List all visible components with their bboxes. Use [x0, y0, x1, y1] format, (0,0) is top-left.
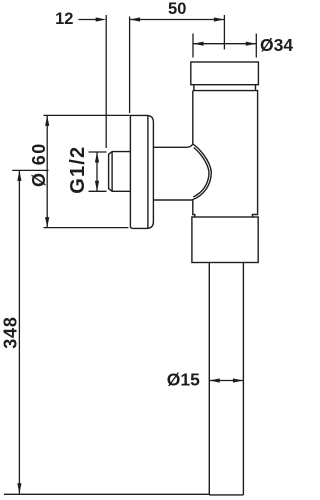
arrow Ø60 top tip	[45, 115, 49, 126]
arrow Ø15 left tip	[209, 378, 220, 382]
arrow Ø15 right tip	[233, 378, 244, 382]
dim 12 extension line right (flange face)	[129, 17, 131, 114]
svg-text:Ø15: Ø15	[167, 370, 200, 390]
svg-text:Ø 60: Ø 60	[29, 142, 49, 187]
svg-text:12: 12	[55, 10, 73, 28]
arrow Ø34 left tip	[193, 42, 204, 46]
elbow inner wall line	[193, 148, 209, 197]
neck band under cap	[194, 85, 256, 91]
svg-text:Ø34: Ø34	[260, 35, 293, 55]
svg-text:G1/2: G1/2	[67, 146, 89, 194]
dim Ø60 extension line bottom	[44, 227, 129, 229]
dim Ø34 extension line left	[192, 34, 194, 58]
arrow G1/2 bottom tip	[95, 181, 99, 192]
nipple chamfer edge line	[111, 152, 113, 192]
valve body lower section	[192, 217, 258, 263]
dim 12 extension line left (nipple face)	[105, 15, 107, 148]
arrow 348 bottom tip	[17, 483, 21, 494]
wall flange outline	[130, 115, 153, 228]
arrow dim12 right-pointing at nipple face	[96, 17, 107, 21]
outlet pipe	[209, 263, 243, 495]
cap (push button head)	[191, 62, 259, 85]
dim Ø60 extension line top	[44, 114, 130, 116]
arrow Ø60 bottom tip	[45, 217, 49, 228]
dim 50 extension line (body centerline)	[223, 15, 225, 50]
svg-text:348: 348	[1, 316, 21, 348]
dim 348 extension line bottom (pipe end)	[4, 493, 209, 495]
dim G1/2 extension line top	[89, 151, 107, 153]
valve body upper section	[193, 91, 258, 215]
arrow dim50 right-pointing at centerline	[214, 17, 225, 21]
dim Ø34 dimension line	[193, 43, 256, 45]
dim 50 dimension line	[130, 19, 225, 21]
flange front face edge line	[147, 115, 149, 228]
elbow housing between flange and body	[153, 144, 211, 200]
dim 12 leader line	[79, 19, 98, 21]
arrow Ø34 right tip	[246, 42, 256, 46]
dim 348 extension line top (inlet axis)	[12, 169, 48, 171]
dim Ø34 extension line right	[255, 34, 257, 58]
svg-text:50: 50	[168, 0, 186, 18]
dim Ø15 dimension line	[209, 380, 243, 382]
arrow G1/2 top tip	[95, 152, 99, 163]
dim G1/2 dimension line	[96, 152, 98, 191]
arrow 348 top tip	[17, 170, 21, 181]
threaded inlet nipple G1/2	[109, 152, 131, 192]
dim Ø60 dimension line	[46, 115, 48, 227]
body bottom chamfer ticks	[194, 215, 253, 218]
dim G1/2 extension line bottom	[89, 190, 107, 192]
dim 348 dimension line	[18, 170, 20, 493]
arrow dim12/50 left-pointing at flange face	[130, 17, 141, 21]
